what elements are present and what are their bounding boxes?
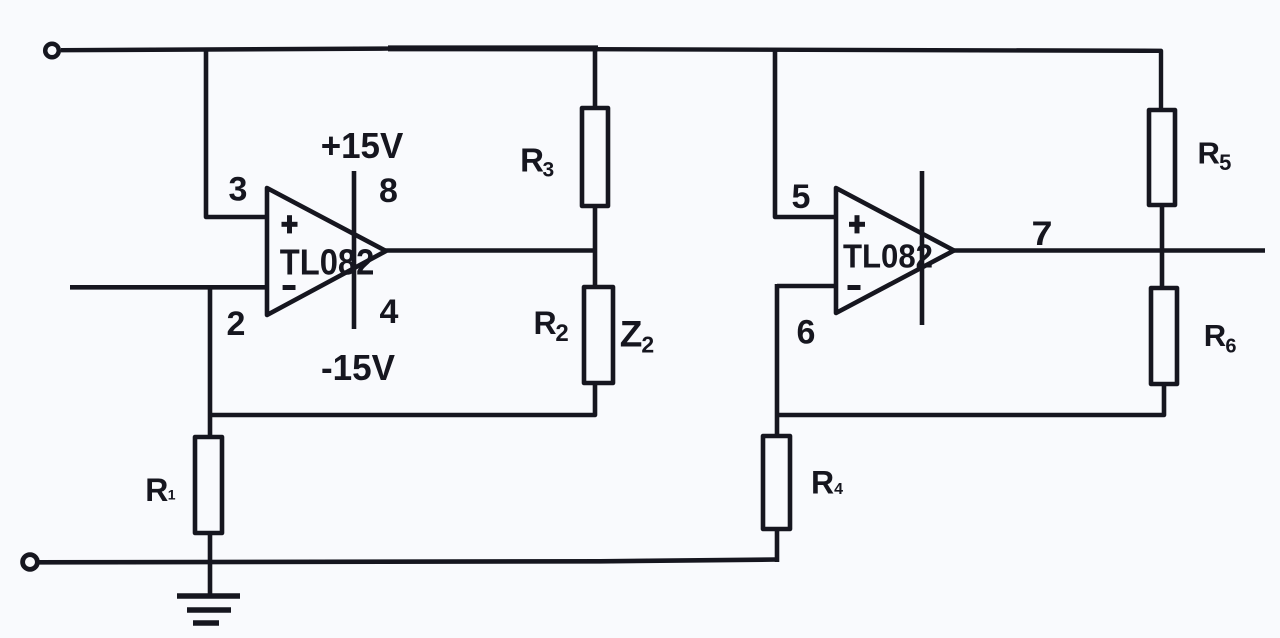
svg-text:4: 4 <box>834 481 843 498</box>
svg-text:TL082: TL082 <box>280 242 375 283</box>
svg-text:R: R <box>533 305 556 341</box>
svg-text:Z: Z <box>620 314 643 355</box>
svg-text:6: 6 <box>797 313 816 351</box>
svg-text:5: 5 <box>792 178 811 216</box>
svg-text:2: 2 <box>641 332 654 358</box>
svg-text:+15V: +15V <box>321 125 404 166</box>
svg-text:7: 7 <box>1032 215 1053 253</box>
svg-text:2: 2 <box>555 320 568 347</box>
svg-text:R: R <box>811 464 834 500</box>
svg-text:5: 5 <box>1219 150 1231 175</box>
svg-text:R: R <box>1198 136 1220 171</box>
svg-text:-15V: -15V <box>321 347 395 388</box>
svg-text:R: R <box>520 142 544 179</box>
svg-text:R: R <box>1204 318 1226 353</box>
svg-text:2: 2 <box>227 305 246 343</box>
svg-text:4: 4 <box>380 293 399 331</box>
svg-text:3: 3 <box>543 158 555 181</box>
svg-text:8: 8 <box>379 172 398 210</box>
svg-text:6: 6 <box>1225 336 1236 358</box>
svg-text:1: 1 <box>168 487 176 503</box>
svg-text:3: 3 <box>229 171 248 209</box>
svg-text:TL082: TL082 <box>843 238 933 275</box>
svg-text:R: R <box>145 472 168 508</box>
